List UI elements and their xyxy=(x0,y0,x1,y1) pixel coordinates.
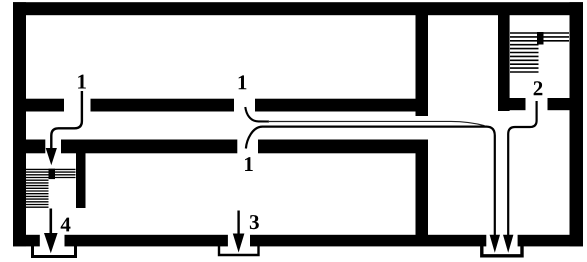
bottom wall segment 4 xyxy=(518,235,583,247)
corridor upper wall segment 2 xyxy=(91,99,235,112)
staircase 2 hatch left flight xyxy=(510,45,539,72)
label 4 xyxy=(61,218,71,232)
staircase 2 divider xyxy=(537,32,544,45)
top wall xyxy=(13,2,583,15)
arrowhead into stair 1 xyxy=(46,148,57,165)
stair2 enclosure left wall xyxy=(498,15,510,111)
route from door 2 to right exit xyxy=(508,101,536,236)
arrow 4 shaft xyxy=(49,209,52,236)
route from bottom-middle door 1 along corridor to right exit xyxy=(246,127,495,236)
route from left door 1 to stair xyxy=(51,91,82,149)
corridor upper wall segment 3 xyxy=(255,99,418,112)
corridor lower wall segment 2 xyxy=(61,140,237,154)
interior vertical wall lower piece xyxy=(416,140,429,247)
right wall xyxy=(570,2,584,246)
route from top-middle door 1 thin corridor line xyxy=(268,121,485,125)
left wall xyxy=(13,2,26,246)
bottom wall segment 1 xyxy=(13,235,40,247)
arrow 4 head xyxy=(44,233,58,253)
corridor lower wall segment 3 xyxy=(258,140,417,154)
bottom wall segment 2 xyxy=(65,235,228,247)
exit porch bottom-right xyxy=(482,246,522,256)
label 2 xyxy=(534,81,543,95)
label 1 top-middle door xyxy=(239,75,247,89)
corridor lower wall segment 1 xyxy=(26,140,45,154)
staircase 1 (bottom-left) hatch left flight xyxy=(26,169,49,207)
interior vertical wall upper piece xyxy=(416,15,429,116)
arrow 3 shaft xyxy=(237,211,239,235)
label 1 left door xyxy=(78,75,86,89)
staircase 1 divider xyxy=(49,169,56,180)
stair1 enclosure right wall xyxy=(76,140,86,209)
stair room lower wall left segment xyxy=(498,98,526,110)
staircase 1 hatch right flight xyxy=(55,169,76,177)
route from top-middle door 1 curve xyxy=(245,107,269,122)
arrowhead right exit right xyxy=(503,235,513,253)
arrow 3 head xyxy=(233,234,245,253)
exit porch bottom-middle xyxy=(219,246,259,255)
corridor upper wall segment 1 xyxy=(26,99,64,112)
arrowhead right exit left xyxy=(490,235,500,253)
exit porch bottom-left xyxy=(33,246,76,257)
label 1 bottom-middle door xyxy=(245,157,253,171)
label 3 xyxy=(250,215,259,229)
staircase 2 (top-right) hatch upper rows xyxy=(510,33,569,41)
stair room lower wall right segment xyxy=(548,98,570,110)
bottom wall segment 3 xyxy=(250,235,486,247)
